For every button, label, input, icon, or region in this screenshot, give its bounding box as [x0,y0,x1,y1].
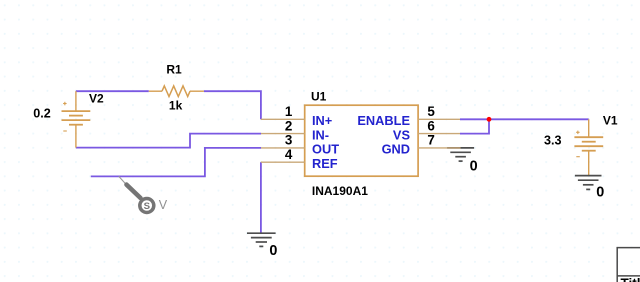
svg-text:V1: V1 [603,114,618,128]
svg-text:0.2: 0.2 [33,106,51,120]
svg-text:IN+: IN+ [312,113,332,128]
ground G1 (REF net) [247,233,276,246]
svg-text:OUT: OUT [312,142,339,157]
svg-text:0: 0 [596,184,604,200]
svg-text:VS: VS [393,127,411,142]
svg-text:Title: Title [621,276,640,282]
svg-text:V2: V2 [89,92,104,106]
svg-text:2: 2 [285,118,292,133]
wire: pin6 VS up to ENABLE net [460,119,489,133]
pin 1 stub [261,118,305,120]
wire top: V2 plus to R1 left [76,90,149,92]
op-amp U1 (INA190A1 box) [305,105,418,176]
voltage probe S (needle) [119,176,126,184]
svg-text:R1: R1 [166,63,182,77]
title block corner [617,248,640,282]
voltage probe S (shaft) [127,185,141,198]
svg-text:GND: GND [382,142,410,157]
svg-text:5: 5 [427,104,435,119]
battery V1 [574,119,603,175]
svg-text:REF: REF [312,156,338,171]
svg-text:V: V [159,198,168,212]
wire: pin5 ENABLE to V1 top [460,118,589,120]
svg-text:3: 3 [285,133,292,148]
pin 4 stub [261,161,305,163]
svg-text:7: 7 [427,133,434,148]
battery V2 [62,91,91,147]
svg-text:INA190A1: INA190A1 [312,184,368,198]
svg-text:3.3: 3.3 [544,133,562,147]
pin 3 stub [261,147,305,149]
svg-text:0: 0 [470,159,478,175]
svg-text:S: S [144,201,151,212]
ground G3 (V1 minus) [575,176,602,190]
wire: V2 minus to pin2 IN- [76,134,261,148]
svg-text:0: 0 [269,243,277,259]
pin 5 stub [418,118,460,120]
ground G2 (pin7 / device GND) [447,148,474,161]
pin 6 stub [418,133,460,135]
resistor R1 [149,86,204,97]
svg-text:ENABLE: ENABLE [357,113,410,128]
svg-text:U1: U1 [311,89,327,103]
wire: probe net to pin3 OUT [91,148,261,177]
pin 2 stub [261,133,305,135]
junction dot (red) on ENABLE net [487,117,492,122]
svg-text:6: 6 [427,118,434,133]
wire: pin4 REF down to ground G1 [260,162,262,233]
voltage probe S (ring) [140,199,154,213]
svg-text:4: 4 [285,147,293,162]
svg-text:1: 1 [285,104,293,119]
svg-text:IN-: IN- [312,127,329,142]
svg-text:1k: 1k [169,99,183,113]
wire: R1 right to pin1 of U1 [204,91,261,119]
pin 7 stub [418,147,461,149]
